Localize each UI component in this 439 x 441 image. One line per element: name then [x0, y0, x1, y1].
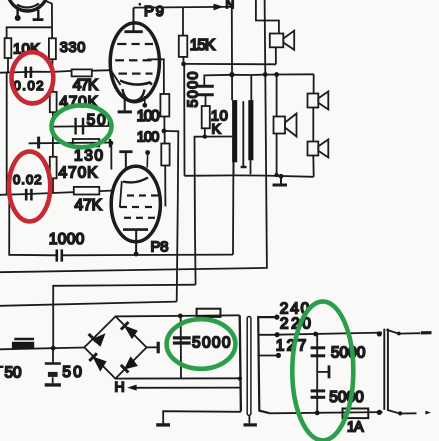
wire secondary top line [232, 73, 314, 76]
svg-text:220: 220 [280, 316, 311, 333]
capacitor C 50 [76, 118, 83, 135]
T1 secondary top lead [250, 75, 252, 100]
wire 2 (feedback line) [0, 0, 267, 272]
capacitor C 0.02 (first) [26, 67, 31, 78]
bridge + terminal bar [147, 342, 159, 354]
capacitor 5000 (screen coupling) [196, 75, 232, 106]
pilot component (black block) [12, 339, 34, 349]
centre tap terminal [317, 365, 329, 378]
input tube V1 (partial, top-left) [7, 0, 48, 11]
smoothing column vertical [316, 334, 318, 413]
svg-text:470K: 470K [59, 165, 99, 182]
svg-text:5000: 5000 [192, 335, 231, 352]
svg-text:5000: 5000 [331, 344, 366, 361]
node B+ / 5000 cap [178, 314, 183, 319]
bridge rectifier diamond [84, 316, 146, 378]
node speaker lead on secondary line [274, 72, 279, 77]
wire L1 from 15K node to speaker1 [184, 63, 276, 65]
ground on secondary bus [273, 173, 288, 185]
P9 grid dashes row 3 [119, 72, 153, 74]
output transformer T1 core line [241, 101, 247, 167]
annotation green ellipse (50) [52, 105, 112, 147]
P9 screen pin dot [142, 96, 147, 108]
resistor 100 (second) [161, 131, 169, 207]
speaker LS4 (right bottom) [308, 108, 329, 177]
node between 100 resistors [162, 129, 167, 134]
wire node A to 10K top [7, 27, 52, 38]
wire 1 (cathode bias line) [9, 195, 233, 257]
resistor 470K (first) [50, 72, 57, 157]
output transformer T1 secondary winding [248, 100, 253, 160]
svg-text:330: 330 [60, 40, 86, 56]
chassis ground left of transformer [156, 411, 241, 425]
P9 inner grid lead [112, 71, 121, 85]
svg-text:50: 50 [5, 365, 22, 382]
wire riser x233 to transformer [232, 162, 234, 255]
svg-text:1A: 1A [347, 419, 364, 435]
annotation green ellipse (5000/5000 right) [292, 301, 353, 440]
svg-text:47K: 47K [73, 77, 99, 94]
diode D3 (bottom-left) [89, 353, 106, 371]
speaker LS3 (right top) [308, 74, 329, 109]
svg-text:P8: P8 [151, 239, 169, 256]
node riser on secondary line [263, 72, 268, 77]
svg-text:5000: 5000 [186, 72, 202, 108]
resistor 10K (screen) [202, 106, 210, 137]
svg-text:K: K [212, 121, 222, 137]
V1 cathode pin lead with terminal dot [15, 10, 21, 22]
tube P9 envelope [110, 23, 159, 102]
wire 130 line with end bar [29, 137, 111, 149]
wire 15K node down to secondary bus [183, 64, 185, 176]
output transformer T1 primary winding [232, 100, 237, 162]
diode D4 (bottom-right) [121, 356, 138, 372]
T1 primary bottom lead [233, 162, 235, 174]
mains live wire 220 to switch [277, 331, 382, 336]
annotation red ellipse (0.02 second) [9, 152, 50, 222]
tap 240 [274, 315, 279, 320]
speaker LS1 [270, 31, 294, 50]
svg-text:N: N [226, 0, 235, 11]
capacitor C 0.02 (second) [26, 189, 31, 201]
label P9 [139, 3, 165, 20]
wire secondary bottom bus [185, 175, 314, 176]
svg-text:130: 130 [74, 147, 103, 164]
svg-text:15K: 15K [190, 37, 216, 54]
P9 anode [124, 8, 142, 32]
resistor 10K [5, 38, 12, 72]
P8 anode curve [123, 178, 148, 183]
annotation green ellipse (5000 reservoir) [167, 319, 236, 369]
P9 anode curve (moustache) [120, 81, 152, 85]
P8 screen pin dot [145, 150, 150, 167]
svg-text:5000: 5000 [329, 389, 364, 406]
resistor 47K (second) [74, 187, 100, 195]
power transformer T2 left conductor [238, 315, 242, 411]
resistor 330 [49, 38, 56, 71]
svg-text:100: 100 [137, 108, 160, 125]
node under 15K [181, 62, 186, 67]
V1 grid pin lead with tick bar [33, 10, 44, 20]
T1 primary top lead [231, 7, 233, 100]
annotation red ellipse (0.02 first) [12, 52, 54, 103]
capacitor C 1000 [57, 249, 62, 261]
grid line 2 (to P8 grid) [0, 191, 114, 195]
diode D2 (top-right) [121, 322, 138, 339]
label 10K (screen) [211, 108, 228, 137]
switch bottom contact arm and terminal arrow [387, 410, 431, 416]
resistor 130 [73, 139, 99, 146]
wire staircase to speaker 1 [256, 0, 279, 33]
LS1 bottom lead [275, 47, 277, 64]
B+ line from bridge top [116, 315, 240, 316]
wire 130-line drop to P8 grid [109, 141, 114, 170]
P9 anode top wire with arrow [134, 4, 232, 11]
svg-text:1000: 1000 [49, 231, 85, 248]
P8 grid dashes row 2 [120, 206, 152, 208]
svg-text:127: 127 [276, 338, 307, 355]
capacitor C 50 (filter, with ground) [45, 348, 61, 385]
svg-text:H: H [115, 379, 125, 395]
svg-text:47K: 47K [75, 197, 103, 214]
tap 127 stub [259, 353, 281, 358]
tube P8 envelope [111, 166, 160, 242]
switch top contact arm and terminal [386, 330, 431, 336]
tap 220 stub [258, 332, 279, 337]
node at 330/470K junction [51, 70, 55, 74]
grid line 1 (to P9 grid) [0, 70, 111, 73]
capacitor C 5000 (upper right) [311, 348, 326, 356]
heater line H with arrow [127, 385, 240, 391]
bridge bottom AC wire to transformer [115, 377, 240, 379]
svg-text:0.02: 0.02 [14, 78, 44, 93]
T2 secondary conductor [258, 317, 277, 413]
capacitor C 5000 (lower right) [311, 391, 326, 397]
fuse 1A [343, 409, 369, 419]
diode D1 (top-left) [89, 333, 106, 347]
wire branch to long vertical [164, 131, 178, 302]
choke resistor on B+ line [197, 309, 221, 317]
P8 grid dashes row 3 [124, 217, 155, 219]
P8 anode top connection [119, 152, 132, 170]
left rail wire [6, 72, 8, 195]
T1 secondary bottom lead [250, 160, 252, 174]
wire from V1 plate to node A [46, 1, 52, 38]
wire primary centre line [195, 134, 233, 284]
P9 grid dashes row 2 [115, 59, 151, 61]
mains switch S1 [384, 329, 388, 410]
T2 core capsule [244, 317, 257, 425]
P8 inner grid lead [120, 181, 122, 208]
wire 3 (to rectifier bus) [53, 285, 195, 348]
svg-text:P9: P9 [144, 3, 164, 20]
P8 grid dashes row 1 [127, 194, 158, 196]
P9 grid dashes row 1 [117, 43, 153, 45]
svg-text:50: 50 [62, 364, 82, 381]
svg-text:100: 100 [137, 130, 160, 146]
node on primary lead [229, 72, 234, 77]
resistor 100 (first) [148, 59, 170, 129]
svg-text:0.02: 0.02 [13, 172, 42, 187]
resistor 15K [179, 7, 188, 62]
mains neutral bottom wire [269, 410, 383, 416]
P8 cathode [123, 230, 148, 254]
P9 cathode cup [123, 89, 145, 101]
label 50 (left, cut) [0, 365, 22, 382]
bottom rectifier AC bus [0, 348, 84, 350]
speaker LS2 (middle) [274, 75, 297, 176]
wire 50-cap line [53, 115, 109, 127]
P9 cathode lead to ground [118, 99, 132, 112]
node bus / filter drop [51, 346, 56, 351]
resistor 47K (first) [72, 69, 92, 76]
capacitor C 5000 (reservoir) [173, 316, 191, 379]
resistor 470K (second) [50, 157, 57, 193]
wire 4 [0, 302, 177, 306]
